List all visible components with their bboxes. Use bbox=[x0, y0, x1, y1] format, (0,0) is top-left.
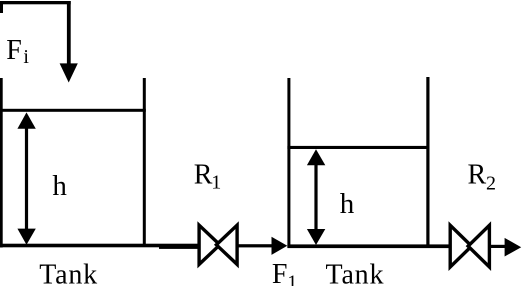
svg-text:Tank: Tank bbox=[39, 259, 98, 286]
wire outlet pipe from valve R2 bbox=[490, 245, 506, 248]
wire pipe from tank T1 to valve R1 (lower offset segment) bbox=[159, 246, 199, 249]
svg-text:R: R bbox=[194, 160, 213, 191]
tank T1 bottom line bbox=[0, 244, 199, 248]
svg-text:h: h bbox=[340, 188, 355, 220]
tank T1 right wall bbox=[143, 78, 146, 247]
svg-text:2: 2 bbox=[486, 173, 496, 195]
wire inlet pipe top horizontal bbox=[0, 1, 71, 4]
svg-text:Tank: Tank bbox=[326, 259, 385, 286]
tank T1 left wall bbox=[0, 78, 3, 248]
svg-text:i: i bbox=[23, 46, 29, 68]
tank T2 bottom line and pipe to valve R2 bbox=[287, 244, 448, 248]
tank T1 liquid level line bbox=[0, 109, 146, 112]
svg-text:1: 1 bbox=[211, 172, 221, 194]
valve R2 bowtie bbox=[450, 225, 489, 267]
svg-text:F: F bbox=[6, 35, 22, 66]
arrowhead inlet flow into tank 1 bbox=[60, 63, 78, 82]
svg-text:R: R bbox=[468, 159, 487, 190]
arrowhead outlet flow bbox=[505, 238, 522, 257]
valve R1 bowtie bbox=[199, 225, 237, 264]
svg-text:1: 1 bbox=[287, 271, 297, 286]
wire pipe from valve R1 toward tank T2 bbox=[238, 244, 273, 247]
wire inlet pipe vertical drop bbox=[67, 1, 71, 66]
level arrow h tank 1 (double-headed) bbox=[17, 112, 35, 244]
tank T2 liquid level line bbox=[287, 146, 429, 149]
tank T2 right wall bbox=[426, 77, 429, 248]
wire inlet pipe left stub bbox=[0, 1, 3, 13]
arrowhead flow F1 into tank 2 bbox=[272, 237, 288, 255]
svg-text:F: F bbox=[272, 259, 288, 286]
level arrow h tank 2 (double-headed) bbox=[307, 149, 325, 245]
svg-text:h: h bbox=[52, 170, 67, 202]
tank T2 left wall bbox=[287, 78, 290, 248]
